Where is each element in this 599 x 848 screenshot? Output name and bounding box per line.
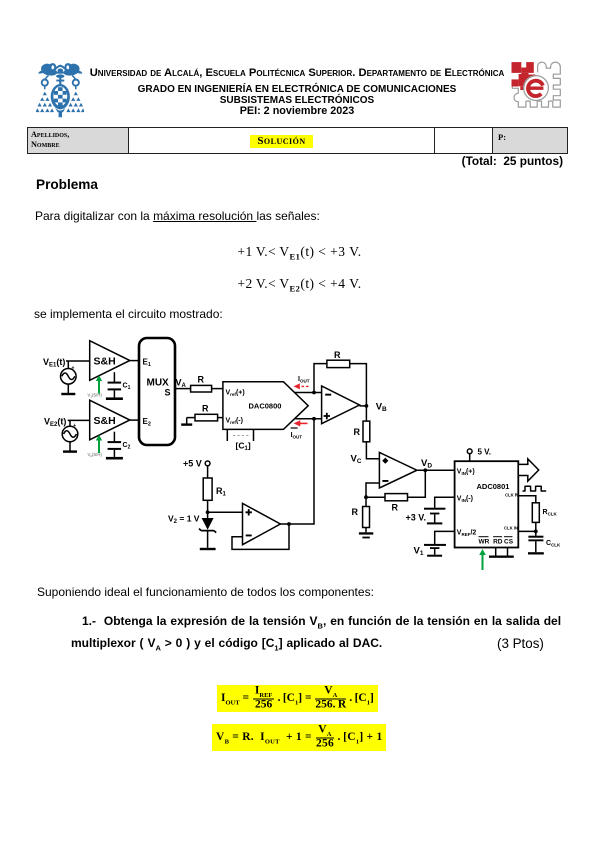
right tassels (66, 92, 85, 113)
current arrow Iout(bar) (291, 420, 308, 439)
left bird (38, 63, 58, 75)
svg-text:S&H: S&H (94, 415, 116, 427)
left tassels (35, 92, 54, 113)
wire MUX S to R (175, 388, 191, 390)
svg-text:V2 = 1 V: V2 = 1 V (168, 514, 200, 526)
ground (CS) (501, 548, 514, 558)
svg-text:CS: CS (504, 539, 514, 546)
ground (source VE2) (63, 442, 77, 453)
shield bottom stem (55, 108, 66, 118)
white circle for e (524, 76, 547, 99)
left knot (42, 80, 48, 86)
svg-text:S&H: S&H (94, 356, 116, 368)
svg-text:R1: R1 (216, 486, 227, 498)
clock waveform symbol (523, 486, 547, 491)
source VE1 (61, 366, 77, 385)
svg-text:R: R (202, 404, 209, 414)
svg-text:VD: VD (421, 458, 432, 470)
current arrow Iout (294, 376, 310, 390)
control arrow V1(S/H) (88, 375, 103, 398)
multiplexer MUX (139, 338, 175, 445)
ground (zener) (200, 548, 216, 550)
op-amp U2 (I-V converter) (322, 386, 360, 424)
svg-text:WR: WR (479, 539, 490, 546)
resistor R (to ground, op-amp U3) (352, 497, 370, 527)
capacitor C1 (108, 372, 131, 397)
svg-text:V2(S/H): V2(S/H) (88, 452, 103, 458)
S&H amplifier 2 (90, 400, 130, 440)
wire CLK R to Rclk (518, 496, 536, 503)
central oval shield (51, 84, 70, 109)
pin RD (493, 537, 503, 546)
wire U5 output to op-amp U2 noninverting input (280, 419, 314, 526)
feedback wire (U5) (232, 524, 289, 549)
top cross above oval (59, 78, 61, 86)
cords (45, 76, 76, 81)
resistor R (VB-VC divider top) (354, 406, 370, 442)
svg-text:V1: V1 (414, 546, 424, 558)
svg-text:VC: VC (351, 454, 362, 466)
node VC / wire to comparator (351, 442, 380, 465)
battery V1 (414, 531, 455, 557)
svg-text:C1: C1 (123, 383, 131, 392)
svg-text:IOUT: IOUT (298, 376, 310, 384)
svg-text:C2: C2 (123, 442, 131, 451)
svg-text:5 V.: 5 V. (478, 448, 492, 457)
svg-text:R: R (334, 350, 341, 360)
write strobe arrow (WR) (479, 549, 486, 570)
op-amp U5 (voltage follower) (243, 503, 281, 544)
resistor Rclk (532, 503, 557, 523)
ground (op-amp U3 network) (359, 528, 373, 539)
ADC U4 ADC0801 (455, 461, 519, 547)
svg-text:VE1(t): VE1(t) (43, 357, 65, 369)
right knot (73, 80, 79, 86)
svg-text:+3 V.: +3 V. (406, 513, 426, 523)
op-amp U3 (non-inverting amplifier) (379, 452, 417, 488)
svg-text:VA: VA (176, 378, 187, 390)
control arrow V2(S/H) (88, 435, 103, 458)
svg-text:VE2(t): VE2(t) (44, 417, 66, 429)
node VA (176, 378, 187, 390)
wire S&H1 to MUX E1 (130, 360, 139, 362)
supply terminal 5V (467, 448, 491, 462)
svg-text:RCLK: RCLK (543, 509, 558, 517)
wire R to Vref- (218, 417, 223, 419)
data output bus arrow (518, 459, 538, 481)
pin CS (504, 537, 514, 546)
wire ground to R (187, 417, 195, 419)
svg-text:VB: VB (376, 402, 387, 414)
wire VE2 to S&H (68, 420, 90, 426)
wire op-amp U3 output / node VD (417, 458, 455, 472)
svg-text:+5 V: +5 V (183, 459, 202, 469)
wire R to Vref+ (212, 388, 223, 390)
source VE2 (62, 423, 78, 442)
ground (C1) (106, 397, 123, 400)
source VE2 label (44, 417, 66, 429)
svg-text:R: R (354, 427, 361, 437)
svg-text:CLK IN: CLK IN (504, 526, 518, 531)
source VE1 label (43, 357, 65, 369)
svg-text:DAC0800: DAC0800 (249, 402, 282, 411)
feedback resistor R (op-amp U3) (364, 470, 425, 512)
svg-text:R: R (352, 507, 359, 517)
ground (Cclk) (528, 552, 544, 554)
supply terminal +5V (reference branch) (183, 459, 210, 479)
wire VE1 to S&H (66, 361, 90, 369)
svg-text:IOUT: IOUT (291, 432, 303, 440)
svg-text:+: + (73, 423, 76, 429)
svg-text:RD: RD (493, 539, 503, 546)
resistor R (Vref+ input) (191, 375, 212, 393)
gray chip meander outline (512, 62, 560, 107)
zener diode D1 (199, 512, 216, 548)
svg-text:S: S (165, 388, 171, 398)
resistor R1 (203, 478, 226, 500)
ground (Vref- network) (181, 418, 192, 426)
wire Rclk to CLK IN (518, 522, 537, 533)
capacitor C2 (108, 432, 131, 457)
ground (source VE1) (61, 384, 75, 395)
node V2 / wire R1 to zener and buffer (168, 500, 243, 525)
digital bus C1 (227, 429, 253, 452)
svg-text:VIN(+): VIN(+) (457, 469, 475, 477)
svg-text:CLK R: CLK R (505, 492, 518, 497)
battery +3V (406, 497, 455, 524)
central rosette (52, 65, 69, 74)
red e (528, 81, 543, 96)
wire op-amp U2 output / node VB (360, 402, 388, 414)
pin WR (479, 537, 490, 546)
S&H amplifier 1 (90, 341, 130, 381)
ground (RD) (489, 548, 502, 558)
feedback resistor R (op-amp U2) (314, 350, 366, 406)
svg-text:+: + (72, 366, 75, 372)
svg-text:R: R (198, 375, 205, 385)
svg-text:V1(S/H): V1(S/H) (88, 393, 103, 399)
svg-text:R: R (392, 503, 399, 513)
right bird (63, 63, 83, 75)
capacitor Cclk (528, 531, 561, 552)
wire DAC Iout- to op-amp noninverting input (295, 417, 321, 421)
wire S&H2 to MUX E2 (130, 419, 139, 421)
svg-text:Vref(+): Vref(+) (226, 390, 245, 398)
resistor R (Vref- input) (195, 404, 218, 421)
DAC U1 DAC0800 (223, 382, 308, 430)
svg-text:ADC0801: ADC0801 (477, 482, 510, 491)
ground (C2) (106, 457, 123, 460)
svg-text:CCLK: CCLK (546, 540, 561, 548)
red corner blocks (512, 62, 536, 90)
wire DAC Iout to op-amp inverting input (294, 391, 321, 395)
svg-text:[C1]: [C1] (236, 441, 251, 453)
